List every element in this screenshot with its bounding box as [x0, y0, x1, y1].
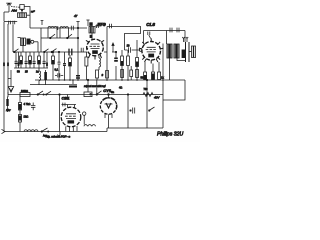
- wire top line y28: [30, 27, 87, 29]
- wire left rail inner: [7, 24, 9, 95]
- wire AVC arrow x113: [112, 43, 114, 52]
- fuse F1 box: [84, 92, 92, 97]
- resistor R10 cathode: [144, 62, 147, 80]
- wire antenna dashed lead: [11, 6, 20, 9]
- terminal left detector: [7, 92, 9, 97]
- wire x147 vertical: [146, 79, 147, 128]
- coil L2 oscillator: [18, 38, 26, 46]
- wire CB1 grid top line: [62, 95, 77, 108]
- tube EF9 envelope: [87, 39, 104, 56]
- resistor R20 lower on x122: [121, 70, 124, 78]
- terminal tick x42: [41, 21, 44, 26]
- trimmer C2 oscillator: [31, 40, 38, 43]
- svg-text:1kΩ: 1kΩ: [24, 115, 29, 119]
- svg-text:µµF: µµF: [31, 11, 36, 13]
- svg-text:Philips 32U: Philips 32U: [157, 131, 183, 137]
- resistor R4 cluster: [52, 51, 55, 80]
- resistor R15 left bottom: [19, 95, 22, 115]
- coil L4 under EF9: [99, 56, 101, 70]
- resistor R12 volume: [20, 93, 30, 97]
- capacitor C1 aerial series: [20, 5, 24, 13]
- switch S4 bottom: [149, 107, 155, 111]
- ground chassis arrow: [8, 70, 14, 92]
- capacitor C4 padder: [15, 52, 18, 68]
- capacitor C8 dark block: [44, 70, 47, 85]
- wire to CL6 grid: [125, 49, 141, 51]
- terminal mains left: [2, 129, 6, 133]
- resistor R9 dark: [136, 40, 139, 80]
- speaker LS1 cone pot: [189, 46, 196, 58]
- switch S1d wave band: [51, 49, 56, 53]
- wire fuse stub x88: [87, 79, 88, 92]
- tube CL6 pins: [139, 38, 164, 63]
- wire row collector y68: [14, 67, 48, 69]
- wire loop to x30: [24, 7, 30, 29]
- capacitor C7: [43, 52, 46, 68]
- wire x59.5 drop: [59, 94, 60, 132]
- trimmer C2a pair: [4, 21, 17, 24]
- capacitor C23 left bottom: [31, 103, 35, 111]
- wire left rail third: [12, 25, 14, 53]
- wire bandpass lower line y38: [41, 28, 78, 52]
- capacitor C16 grid CL6: [129, 47, 131, 53]
- capacitor C19 electrolytic: [69, 80, 77, 87]
- resistor R5 cluster: [69, 55, 72, 80]
- svg-text:0,1: 0,1: [55, 68, 59, 72]
- wire L1 to vertical: [27, 14, 31, 16]
- svg-text:CL6: CL6: [146, 22, 155, 27]
- tube CY1 envelope: [100, 98, 116, 114]
- resistor R17 under EF9 edge: [85, 52, 88, 80]
- svg-text:CB1: CB1: [62, 96, 71, 101]
- capacitor C14 on anode run: [109, 24, 111, 28]
- wire bottom mains bus: [4, 128, 163, 132]
- wire detector line y94.5: [8, 94, 163, 96]
- speaker LS1 magnet dark: [182, 50, 185, 59]
- svg-text:12v: 12v: [6, 108, 11, 112]
- wire coil drops: [48, 28, 68, 38]
- resistor R16 left bottom: [19, 115, 22, 132]
- tube CL6 electrodes: [146, 47, 156, 57]
- resistor R8: [127, 50, 130, 80]
- wire CL6 top run: [144, 31, 186, 45]
- capacitor C18 tick: [177, 28, 179, 33]
- switch S2 on detector line: [37, 91, 44, 95]
- resistor R21 below R9: [136, 70, 139, 78]
- tube CB1 pins: [66, 126, 77, 132]
- resistor R2: [29, 52, 32, 68]
- junction bus dots: [58, 79, 164, 81]
- wire oscillator to tuning line: [23, 42, 38, 52]
- capacitor C28 thin: [46, 52, 48, 68]
- switch S7 blade: [67, 34, 72, 39]
- wire CY1 top to line: [108, 94, 110, 98]
- coil L6 humps on line: [48, 27, 57, 28]
- tube CY1 electrodes: [105, 103, 113, 108]
- resistor R3: [38, 52, 41, 68]
- speaker terminals forks: [182, 37, 188, 42]
- tube CB1 envelope: [61, 107, 81, 127]
- wire ground return y84.6: [30, 84, 69, 86]
- svg-text:4 7kΩ: 4 7kΩ: [24, 102, 31, 106]
- coil L2b oscillator dark: [27, 39, 31, 45]
- capacitor C5: [25, 52, 28, 68]
- wire main HT bus y80: [35, 79, 185, 81]
- resistor R1: [20, 52, 23, 68]
- capacitor C3 coupling on grid line: [69, 49, 72, 56]
- svg-text:4Ω: 4Ω: [119, 87, 122, 90]
- capacitor C9 cluster: [58, 51, 61, 80]
- tube CY1 pins: [105, 114, 112, 128]
- svg-text:700: 700: [144, 88, 149, 91]
- capacitor CL6 top cap ticks: [148, 32, 151, 39]
- switch S2b on detector line: [46, 91, 51, 95]
- capacitor C29 small box: [130, 66, 133, 80]
- capacitor C6: [33, 52, 36, 68]
- wire transformer to bus: [170, 58, 186, 80]
- svg-text:9n: 9n: [111, 90, 115, 94]
- tube CB1 electrodes: [65, 114, 76, 124]
- resistor R7: [121, 50, 124, 80]
- tube EF9 pins: [86, 40, 104, 59]
- wire x128 vertical: [127, 94, 128, 128]
- tube CL6 envelope: [142, 42, 161, 61]
- switch S1b wave band: [44, 49, 49, 53]
- antenna A1: [6, 3, 11, 10]
- switch S3: [96, 80, 101, 95]
- transformer T1 primary: [167, 44, 172, 58]
- wire screen rail x78: [76, 22, 79, 81]
- wire screen vertical x107: [104, 52, 107, 80]
- coil L7 humps on line: [60, 27, 68, 28]
- grid cap EF9: [89, 25, 98, 40]
- switch S6 blade: [50, 34, 55, 39]
- capacitor C30 above bus: [55, 73, 63, 77]
- svg-text:47: 47: [74, 14, 78, 18]
- coil L1 aerial hatched: [18, 13, 27, 18]
- wire HT corner right: [163, 80, 185, 100]
- wire main grid line y52: [13, 51, 87, 53]
- wire cathode rail x163: [162, 44, 164, 129]
- capacitor C27 thin: [18, 52, 20, 68]
- svg-text:EF9: EF9: [97, 22, 106, 27]
- wire antenna stem down: [4, 10, 9, 21]
- capacitor C21 dark below terminal: [7, 97, 9, 113]
- resistor R18 cathode: [158, 62, 161, 80]
- coil L5 mains choke: [24, 130, 38, 132]
- tube EF9 electrodes: [90, 44, 100, 54]
- capacitor C22 bottom mid: [130, 108, 135, 114]
- fuse hook bottom: [58, 132, 60, 136]
- switch S1a wave band: [14, 49, 19, 53]
- capacitor C20 dark on rail: [76, 76, 80, 78]
- resistor R13 zigzag on line: [143, 93, 153, 97]
- capacitor C24 ticks on line: [71, 26, 73, 30]
- node grid CL6: [139, 49, 142, 52]
- resistor R6 under EF9: [96, 70, 99, 80]
- resistor R14 humps: [84, 125, 95, 127]
- wire left rail outer: [3, 22, 5, 132]
- capacitor C10 cluster dark: [63, 52, 66, 80]
- svg-text:Alg. schema PDF—n: Alg. schema PDF—n: [45, 135, 71, 139]
- lamp LA1 dial: [83, 112, 86, 125]
- resistor R19 on x107: [106, 71, 109, 79]
- capacitor C15 dark x116: [112, 51, 118, 80]
- capacitor C26 ticks before tube: [81, 48, 83, 52]
- wire EF9 anode top run: [107, 27, 141, 53]
- capacitor C17 tick: [170, 28, 172, 33]
- resistor R11 cathode: [152, 64, 155, 80]
- trimmer C25 tick: [57, 26, 59, 30]
- switch S5 mains: [41, 128, 49, 132]
- svg-text:Afst: Afst: [11, 8, 17, 12]
- svg-text:100kΩ: 100kΩ: [21, 90, 28, 93]
- coil L3 filter choke vertical: [39, 68, 41, 85]
- speaker LS1 frame: [186, 42, 190, 62]
- transformer T1 secondary: [174, 44, 179, 58]
- wire stub top y20: [86, 20, 92, 26]
